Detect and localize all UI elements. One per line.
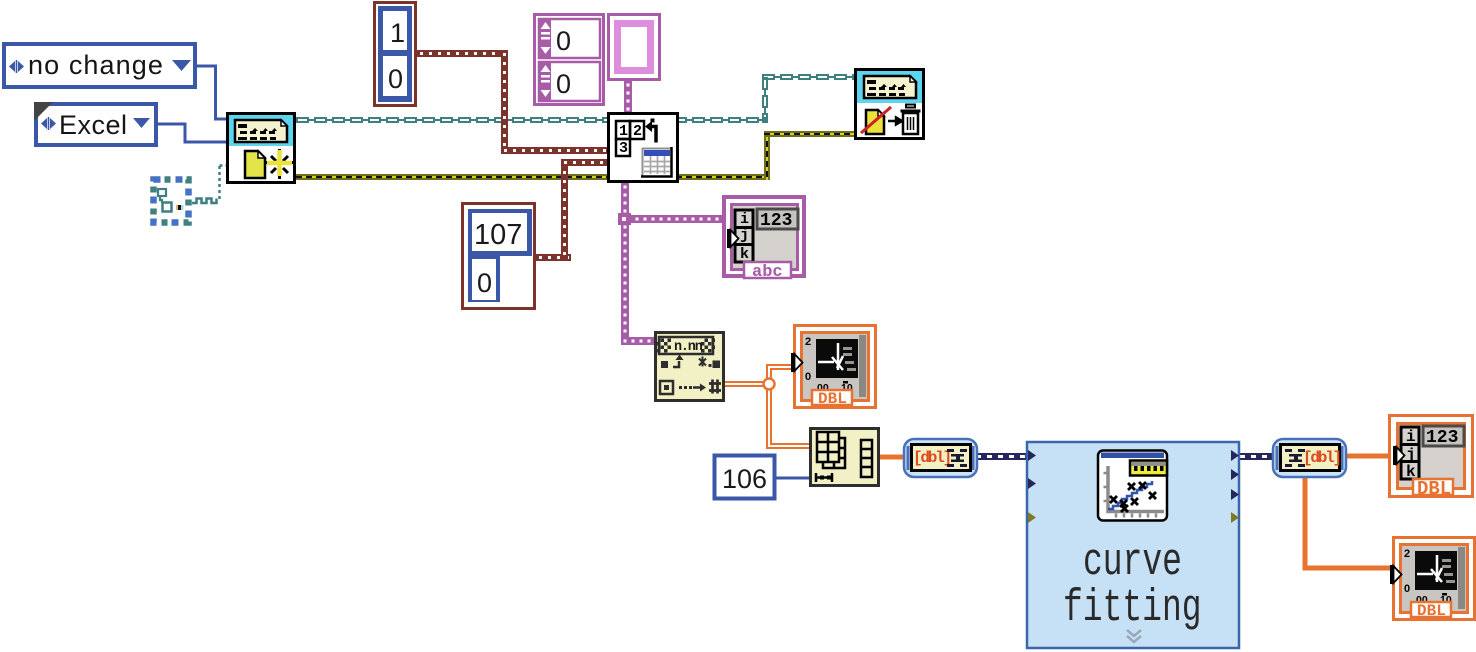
svg-text:106: 106: [722, 464, 767, 494]
svg-text:i: i: [1406, 428, 1416, 446]
svg-text:n.nn: n.nn: [674, 340, 703, 355]
svg-text:0: 0: [556, 26, 571, 56]
svg-text:curve: curve: [1083, 536, 1182, 588]
svg-text:j: j: [1406, 446, 1416, 464]
svg-text:0: 0: [805, 371, 811, 383]
svg-text:i: i: [740, 211, 749, 228]
svg-text:123: 123: [760, 211, 792, 231]
svg-text:0: 0: [1404, 583, 1410, 595]
svg-text:0: 0: [477, 268, 492, 298]
svg-text:107: 107: [474, 219, 522, 251]
svg-text:1: 1: [619, 123, 628, 140]
svg-text:[dbl]: [dbl]: [913, 449, 950, 467]
svg-text:3: 3: [619, 140, 628, 157]
svg-text:fitting: fitting: [1063, 582, 1202, 634]
svg-text:Excel: Excel: [59, 110, 128, 140]
svg-text:0: 0: [388, 64, 403, 94]
svg-text:j: j: [740, 227, 749, 244]
svg-text:[dbl]: [dbl]: [1303, 449, 1340, 467]
svg-text:1: 1: [390, 18, 405, 48]
svg-text:2: 2: [1404, 548, 1410, 560]
svg-text:0: 0: [556, 69, 571, 99]
svg-text:abc: abc: [752, 263, 783, 282]
svg-text:no change: no change: [28, 50, 164, 80]
svg-text:k: k: [740, 246, 749, 263]
svg-text:123: 123: [1426, 428, 1458, 448]
svg-text:DBL: DBL: [1417, 478, 1451, 500]
svg-text:DBL: DBL: [1417, 602, 1446, 620]
svg-text:2: 2: [805, 336, 811, 348]
svg-text:DBL: DBL: [818, 390, 847, 408]
svg-text:2: 2: [633, 123, 642, 140]
